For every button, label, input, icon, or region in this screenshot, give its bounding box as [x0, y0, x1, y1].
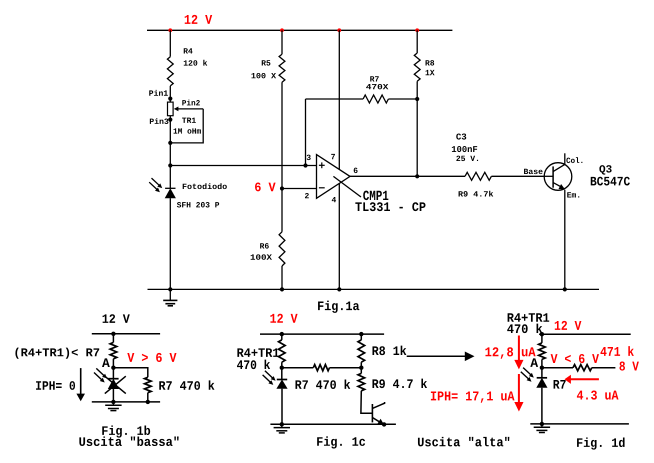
- transistor Q3 base bar: [552, 166, 554, 187]
- wire R8 to output node: [416, 81, 418, 176]
- wire to op-amp plus input: [170, 165, 316, 167]
- label SFH 203 P: [177, 202, 219, 207]
- wire R6 to ground rail: [281, 266, 283, 289]
- label R7 470 k fig1b: [159, 380, 214, 390]
- wire node to R7 fig1c: [282, 367, 314, 369]
- label TR1: [182, 118, 196, 123]
- label V < 6 V fig1d: [551, 354, 599, 363]
- label V > 6 V: [127, 353, 176, 362]
- resistor R5: [279, 54, 285, 82]
- ground symbol fig1c: [281, 424, 283, 427]
- wire 12V supply rail: [147, 29, 452, 31]
- label Base: [524, 169, 543, 174]
- label BC547C: [591, 177, 630, 186]
- wire 471k to 8V fig1d: [592, 367, 616, 369]
- transistor Q3 emitter: [553, 183, 561, 187]
- wire node to 471k fig1d: [542, 367, 573, 369]
- op-amp CMP1 triangle: [317, 155, 351, 199]
- ground symbol fig1d: [541, 424, 543, 427]
- wire R9 to base: [491, 175, 553, 177]
- wire R7 to rail fig1b: [147, 393, 149, 402]
- label R4+TR1 fig1d: [508, 313, 550, 322]
- node feedback junction at plus input: [303, 163, 307, 167]
- current arrow IPH fig1d: [518, 374, 520, 402]
- transistor collector fig1c: [372, 402, 384, 408]
- label Fig. 1c: [317, 436, 365, 448]
- label R9 4.7 k fig1c: [372, 379, 427, 389]
- label Fotodiodo: [183, 183, 227, 189]
- label R8: [426, 60, 435, 65]
- label node A fig1b: [102, 358, 110, 367]
- label 120 k: [184, 60, 208, 66]
- current arrow IPH fig1b: [80, 368, 82, 394]
- node gnd R7 fig1b: [146, 400, 150, 404]
- op-amp plus sign: [319, 164, 325, 166]
- wire node A to R7 fig1b: [113, 368, 147, 378]
- node emitter gnd fig1c: [382, 422, 386, 426]
- label 25 V.: [456, 156, 478, 161]
- label CMP1: [363, 191, 388, 201]
- node gnd photodiode fig1b: [111, 400, 115, 404]
- label Uscita alta: [418, 437, 509, 447]
- label node A fig1d: [530, 358, 538, 367]
- wire 12V to R8: [416, 30, 418, 53]
- cross-out X fig1b: [105, 376, 126, 393]
- label Pin2: [182, 100, 200, 106]
- label R9 4.7k: [459, 191, 494, 197]
- node A fig1b: [111, 366, 115, 370]
- node ground at R6: [280, 287, 284, 291]
- node rail right fig1c: [359, 332, 363, 336]
- wire rail to R4TR1 fig1c: [281, 334, 283, 340]
- label IPH= 0: [36, 381, 75, 390]
- resistor R4+TR1 fig1d: [539, 343, 546, 360]
- ground symbol fig1b: [112, 402, 114, 405]
- node rail fig1d: [540, 332, 544, 336]
- photodiode D1: [165, 187, 175, 189]
- wire ground rail fig1d: [530, 423, 629, 425]
- resistor R8 fig1c: [358, 340, 365, 362]
- label IPH= 17,1 uA fig1d: [431, 392, 515, 403]
- resistor R6: [279, 232, 285, 266]
- current arrow 4.3 uA fig1d: [570, 378, 599, 380]
- label 100nF: [452, 146, 477, 152]
- label 100X: [251, 254, 272, 259]
- resistor R4+TR1 fig1c: [279, 340, 286, 362]
- photodiode fig1c: [277, 379, 287, 381]
- wire TR1 to photodiode: [169, 116, 171, 189]
- node 12V at op-amp V+: [337, 28, 341, 32]
- transistor Q3 body: [544, 163, 572, 191]
- pin 3 label: [307, 155, 311, 160]
- label R7 470 k fig1c: [295, 379, 350, 389]
- arrow fig1c to fig1d: [407, 355, 466, 357]
- wire photodiode to ground rail: [169, 198, 171, 289]
- wire 12V rail fig1b: [92, 333, 160, 335]
- resistor R8: [414, 53, 420, 81]
- wire 12V to R4: [169, 30, 171, 56]
- wire op-amp output: [350, 175, 465, 177]
- label 1M oHm: [174, 128, 201, 133]
- pin 6 label: [354, 168, 358, 173]
- label TL331 - CP: [355, 202, 425, 211]
- photodiode fig1b: [108, 378, 118, 380]
- label Col.: [566, 157, 582, 163]
- node 12V at R4: [168, 28, 172, 32]
- label 100 X: [251, 73, 276, 78]
- wire TR1 wiper to Pin3 net: [170, 109, 203, 143]
- label 470 k fig1d: [507, 324, 542, 334]
- wire ground rail fig1c: [270, 423, 396, 425]
- op-amp minus sign: [319, 187, 325, 189]
- node gnd photodiode fig1c: [280, 422, 284, 426]
- wire R4 to TR1: [169, 86, 171, 102]
- wire rail to R8 fig1c: [360, 334, 362, 340]
- label 470 k fig1c: [237, 360, 270, 370]
- label R7: [370, 76, 379, 81]
- photodiode fig1d: [537, 377, 547, 379]
- label R8 1k fig1c: [372, 346, 406, 356]
- node wiper junction: [168, 141, 172, 145]
- photodiode fig1d light arrows: [523, 368, 531, 375]
- wire photodiode to gnd fig1c: [281, 389, 283, 425]
- label 12 V supply: [185, 15, 212, 24]
- node 12V at R5: [280, 28, 284, 32]
- label 6 V: [255, 183, 276, 192]
- resistor R9 fig1c: [358, 373, 365, 390]
- resistor R7 horizontal fig1c: [313, 365, 329, 371]
- wire 6V node to op-amp minus input: [282, 188, 317, 190]
- node non-inverting tap: [168, 163, 172, 167]
- label Fig. 1b: [102, 425, 150, 437]
- label Pin3: [150, 118, 169, 124]
- wire R4TR1 to node fig1d: [541, 359, 543, 377]
- label Fig.1a: [318, 301, 359, 313]
- transistor base bar fig1c: [371, 404, 373, 422]
- node 12V at R8: [415, 28, 419, 32]
- node A fig1d: [540, 366, 544, 370]
- wire ground rail fig1b: [92, 401, 160, 403]
- label 12 V fig1b: [103, 314, 130, 323]
- label 1X: [426, 70, 435, 75]
- resistor R4+TR1 fig1b: [110, 342, 117, 358]
- photodiode fig1b light arrows: [96, 368, 104, 375]
- node 6V divider: [280, 186, 284, 190]
- wire feedback to R7: [306, 98, 364, 100]
- node left fig1c: [280, 366, 284, 370]
- wire R4TR1 to node A fig1b: [112, 359, 114, 379]
- label 470X: [366, 84, 388, 89]
- wire 12V rail fig1d: [539, 333, 631, 335]
- label Pin1: [149, 90, 168, 96]
- transistor emitter fig1c: [372, 418, 380, 423]
- wire 6V node to R6: [281, 189, 283, 232]
- label Q3: [599, 165, 611, 175]
- resistor 471k fig1d: [573, 365, 592, 371]
- resistor R7 feedback: [363, 95, 388, 103]
- label R4: [184, 48, 193, 53]
- wire 12V rail fig1c: [260, 333, 384, 335]
- wire R9 to base fig1c: [361, 391, 373, 413]
- label 4.3 uA fig1d: [577, 390, 619, 399]
- wire photodiode to gnd fig1d: [541, 388, 543, 424]
- photodiode fig1c light arrows: [265, 371, 273, 378]
- node gnd fig1d: [540, 422, 544, 426]
- node ground at op-amp V-: [337, 287, 341, 291]
- label Uscita bassa: [79, 436, 178, 446]
- label 471 k fig1d: [600, 346, 633, 356]
- label 8 V fig1d: [619, 361, 638, 370]
- resistor R4: [167, 57, 173, 86]
- photodiode D1 light arrows: [152, 178, 160, 185]
- node right fig1c: [359, 366, 363, 370]
- resistor R9: [465, 172, 491, 180]
- node output at R8 branch: [415, 174, 419, 178]
- label R6: [260, 243, 269, 248]
- label C3: [456, 133, 466, 139]
- wire rail to R4TR1 fig1d: [541, 334, 543, 343]
- node rail fig1b: [111, 332, 115, 336]
- pin 2 label: [305, 193, 309, 198]
- wire emitter to ground rail: [564, 190, 566, 290]
- wire R7 to right node fig1c: [330, 367, 362, 369]
- label 12 V fig1d: [555, 321, 582, 330]
- wire R8 to node fig1c: [360, 362, 362, 373]
- node ground at emitter: [563, 287, 567, 291]
- wire R7 to R8 node: [388, 98, 417, 100]
- wire photodiode to rail fig1b: [112, 389, 114, 402]
- label R5: [262, 60, 271, 65]
- label Em.: [567, 192, 579, 197]
- node Pin1: [168, 97, 172, 101]
- trimmer TR1 wiper arrow: [174, 107, 179, 112]
- trimmer TR1 body: [168, 102, 174, 116]
- label Fig. 1d: [577, 437, 625, 449]
- node ground at photodiode: [168, 287, 172, 291]
- label R7 fig1d: [554, 380, 566, 389]
- label (R4+TR1)< R7: [15, 348, 99, 359]
- label 12 V fig1c: [270, 314, 297, 323]
- wire feedback vertical: [305, 99, 307, 166]
- transistor Q3 collector: [553, 164, 565, 171]
- resistor R7 fig1b: [145, 377, 152, 392]
- wire 12V to R5: [281, 30, 283, 54]
- node rail left fig1c: [280, 332, 284, 336]
- op-amp leader line: [333, 176, 361, 197]
- ground symbol main: [169, 289, 171, 300]
- wire R5 to 6V node: [281, 82, 283, 188]
- label R4+TR1 fig1c: [237, 348, 279, 357]
- wire R4TR1 to node fig1c: [281, 362, 283, 379]
- wire rail to R4TR1 fig1b: [112, 334, 114, 343]
- pin 7 label: [331, 154, 335, 159]
- node Pin3: [168, 118, 172, 122]
- pin 4 label: [332, 197, 336, 202]
- wire op-amp supply vertical: [338, 30, 340, 289]
- wire ground rail: [148, 288, 600, 290]
- current arrow 12,8 uA fig1d: [485, 347, 535, 358]
- node feedback at R8: [415, 97, 419, 101]
